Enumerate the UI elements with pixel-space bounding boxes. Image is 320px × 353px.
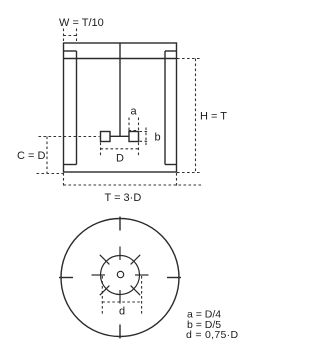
label C = D <box>17 150 45 162</box>
tank outline <box>64 43 177 172</box>
liquid level line <box>64 58 177 60</box>
label T = 3D <box>105 192 142 204</box>
dimension a <box>129 118 139 131</box>
dimension d bracket <box>102 276 141 314</box>
top view tank circle <box>59 217 181 339</box>
tank circle tick right <box>167 277 181 279</box>
legend d = 0,75 D <box>186 329 238 341</box>
label d <box>119 306 125 318</box>
shaft circle top view <box>117 271 123 277</box>
svg-text:b: b <box>155 132 161 144</box>
svg-text:a: a <box>131 106 138 118</box>
shaft <box>119 43 121 136</box>
label a <box>131 106 138 118</box>
label D <box>116 153 124 165</box>
baffle right <box>165 51 177 165</box>
dimension C <box>37 137 100 174</box>
legend a = D/4 <box>187 309 221 321</box>
tank circle tick bottom <box>119 325 121 339</box>
dimension b <box>140 128 148 146</box>
label b <box>155 132 161 144</box>
label W = T/10 <box>59 17 104 29</box>
impeller circle top view <box>101 256 140 295</box>
dimension D impeller <box>101 118 139 158</box>
impeller blade right <box>129 132 139 142</box>
dimension W verticals <box>64 29 77 42</box>
svg-text:d: d <box>119 306 125 318</box>
svg-text:C = D: C = D <box>17 150 45 162</box>
tank circle tick top <box>119 217 121 231</box>
legend b = D/5 <box>187 319 221 331</box>
svg-text:D: D <box>116 153 124 165</box>
svg-text:W = T/10: W = T/10 <box>59 17 104 29</box>
svg-text:d = 0,75·D: d = 0,75·D <box>186 329 238 341</box>
dimension H <box>177 59 202 173</box>
label H = T <box>200 111 227 123</box>
baffle left <box>64 51 77 165</box>
impeller hub bar <box>110 135 129 137</box>
impeller blade ticks top view <box>92 247 149 304</box>
impeller blade left <box>101 132 111 142</box>
dimension T <box>64 173 203 187</box>
tank circle tick left <box>59 277 73 279</box>
svg-text:H = T: H = T <box>200 111 227 123</box>
svg-text:T = 3·D: T = 3·D <box>105 192 142 204</box>
